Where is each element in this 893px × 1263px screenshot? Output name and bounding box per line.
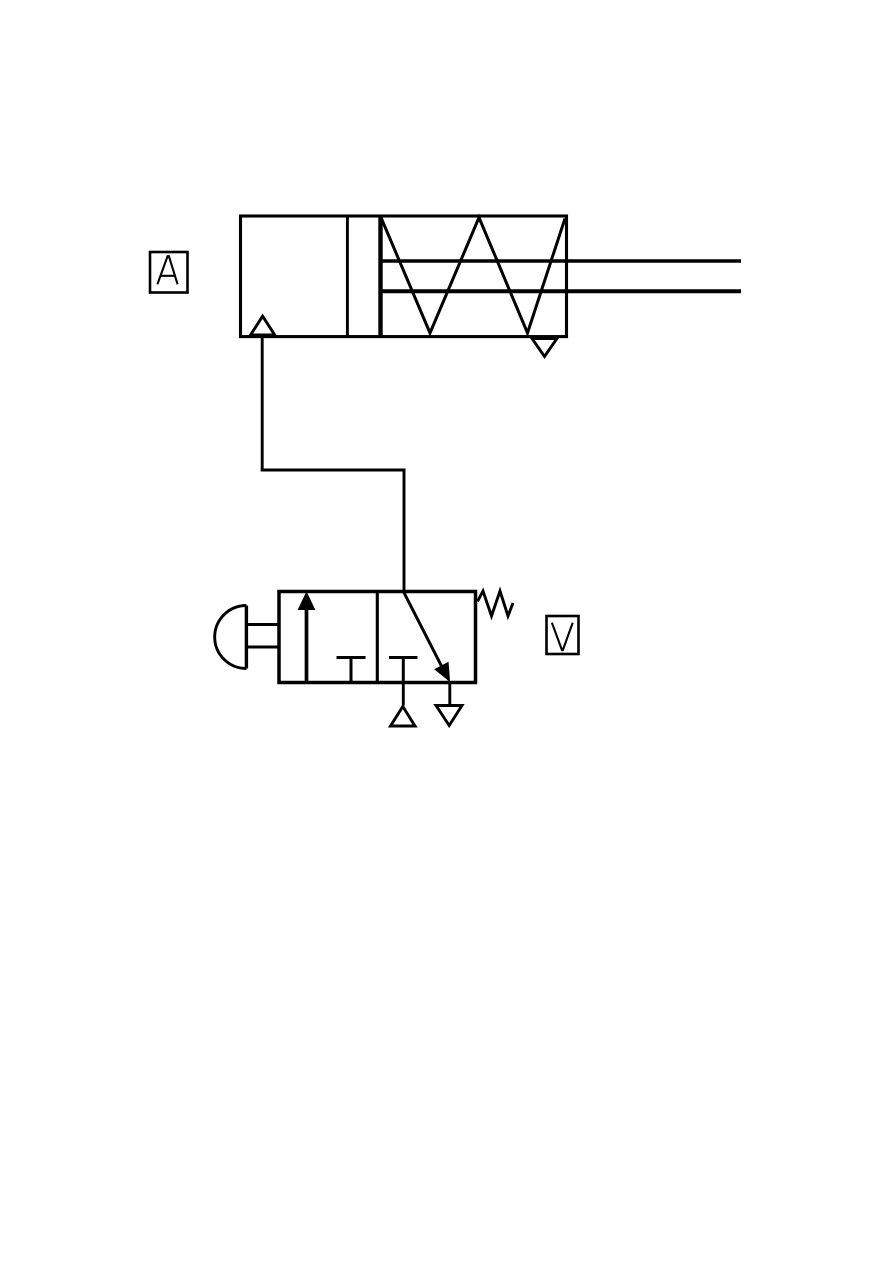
valve V pushbutton actuator: [215, 606, 279, 669]
valve V supply triangle: [391, 707, 416, 727]
wire vertical segment to valve port 2: [403, 469, 406, 592]
valve V position divider: [376, 592, 379, 683]
label A: [150, 252, 188, 293]
valve V blocked port T (right position): [389, 658, 418, 682]
valve V exhaust port stem: [448, 683, 451, 706]
valve V supply port stem: [402, 683, 405, 706]
valve V blocked port T (left position): [337, 658, 366, 682]
valve V body: [279, 592, 476, 683]
valve V exhaust triangle: [436, 706, 462, 726]
valve V diagonal exhaust arrow (right position): [403, 592, 449, 682]
cylinder A body: [241, 216, 567, 337]
cylinder A vent triangle: [532, 339, 557, 357]
valve V return spring: [478, 591, 514, 616]
cylinder A port triangle: [251, 316, 275, 335]
cylinder A return spring: [381, 218, 565, 334]
valve V flow arrow (left position): [298, 593, 314, 682]
cylinder A piston rod upper line: [381, 259, 742, 262]
label V: [547, 616, 579, 654]
cylinder A piston line 2: [378, 216, 382, 337]
cylinder A piston rod lower line: [381, 289, 742, 293]
cylinder A piston line 1: [346, 216, 349, 337]
wire horizontal segment: [261, 469, 406, 472]
wire vertical segment from cylinder port: [261, 337, 264, 471]
